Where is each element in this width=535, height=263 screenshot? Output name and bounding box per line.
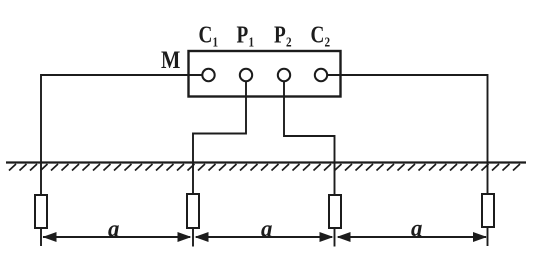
svg-text:C: C <box>199 22 213 49</box>
svg-text:a: a <box>261 216 273 243</box>
svg-text:P: P <box>274 22 286 49</box>
svg-text:a: a <box>411 215 423 242</box>
svg-text:a: a <box>108 216 120 243</box>
svg-text:2: 2 <box>325 34 331 49</box>
svg-text:1: 1 <box>249 34 255 49</box>
svg-text:1: 1 <box>213 34 219 49</box>
svg-text:P: P <box>237 22 249 49</box>
svg-text:C: C <box>311 22 325 49</box>
svg-text:2: 2 <box>286 34 292 49</box>
svg-text:M: M <box>161 46 180 73</box>
